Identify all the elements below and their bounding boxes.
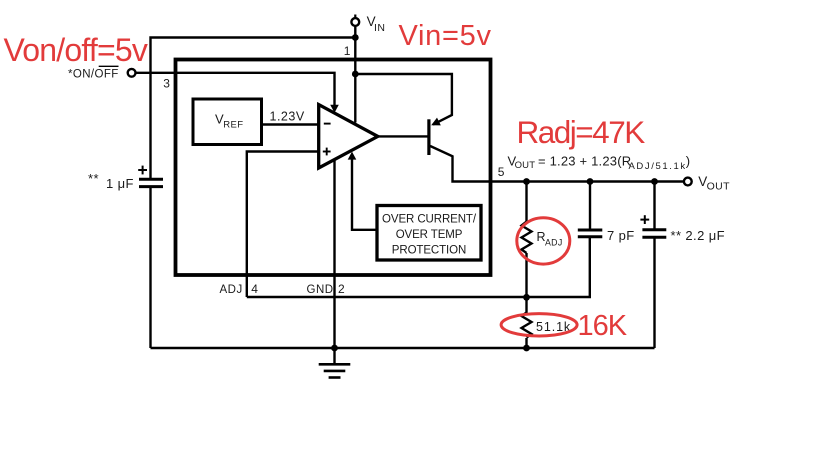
svg-text:Vin=5v: Vin=5v xyxy=(399,20,492,52)
junction node Vout-7pF xyxy=(587,178,594,185)
svg-text:1: 1 xyxy=(344,44,351,58)
wire collector to Vout xyxy=(430,146,684,182)
junction node Vout-Radj xyxy=(523,178,530,185)
capacitor C1 plus xyxy=(138,169,147,171)
svg-text:7 pF: 7 pF xyxy=(607,228,635,243)
svg-text:5: 5 xyxy=(498,165,505,179)
capacitor C2 7pF plates xyxy=(578,229,603,232)
svg-text:REF: REF xyxy=(223,120,243,131)
overline OFF xyxy=(99,65,119,67)
op-amp U1 error amplifier xyxy=(319,105,378,168)
svg-text:Von/off=5v: Von/off=5v xyxy=(4,32,148,68)
junction node Vout-2.2uF xyxy=(651,178,658,185)
wire Radj top xyxy=(525,182,527,223)
wire opamp output to base xyxy=(378,135,428,137)
wire opamp gnd xyxy=(333,160,335,348)
wire 51.1k bottom xyxy=(525,338,527,348)
transistor Q1 emitter arrowhead xyxy=(429,118,441,130)
capacitor C1 1uF plates xyxy=(139,178,163,181)
over current / over temp protection box xyxy=(377,206,481,261)
junction node Vin top xyxy=(352,34,359,41)
junction node Radj-51.1k xyxy=(523,294,530,301)
red ellipse around 51.1k xyxy=(501,314,577,336)
wire ADJ feedback rail xyxy=(247,237,590,297)
wire Vin branch left to cap xyxy=(151,38,356,179)
wire Vin internal branch to pass transistor emitter xyxy=(355,74,452,125)
wire opamp minus input from Vref xyxy=(262,123,319,125)
svg-text:OVER TEMP: OVER TEMP xyxy=(396,229,463,241)
svg-text:IN: IN xyxy=(374,22,385,34)
junction node gnd rail center xyxy=(331,345,338,352)
svg-text:ADJ/51.1k: ADJ/51.1k xyxy=(629,161,687,172)
capacitor C3 plus xyxy=(640,219,649,221)
svg-text:4: 4 xyxy=(251,282,258,296)
protection arrowhead xyxy=(348,152,357,160)
svg-text:= 1.23 + 1.23(R: = 1.23 + 1.23(R xyxy=(538,154,631,169)
wire opamp plus input feedback xyxy=(247,152,319,298)
wire 7pF top xyxy=(589,182,591,230)
wire 2.2uF bottom xyxy=(653,237,655,348)
terminal VOUT xyxy=(684,178,692,186)
svg-text:ADJ: ADJ xyxy=(220,284,243,296)
wire ON/OFF to enable arrow xyxy=(136,73,335,106)
svg-text:OUT: OUT xyxy=(707,180,731,192)
wire protection to opamp xyxy=(352,158,377,230)
opamp plus sign xyxy=(323,151,331,153)
regulator IC box U1 xyxy=(176,60,491,276)
transistor Q1 base bar xyxy=(427,119,430,155)
svg-text:*ON/OFF: *ON/OFF xyxy=(68,68,119,80)
svg-text:ADJ: ADJ xyxy=(545,238,563,248)
terminal ON/OFF xyxy=(128,69,136,77)
svg-text:PROTECTION: PROTECTION xyxy=(392,245,466,257)
ground xyxy=(333,348,335,364)
red circle around RADJ xyxy=(517,218,570,264)
resistor RADJ zigzag xyxy=(522,222,532,254)
terminal VIN stub xyxy=(354,15,356,19)
Vref box xyxy=(193,99,262,145)
capacitor C3 2.2uF plates xyxy=(642,228,666,231)
wire ground rail xyxy=(151,347,655,349)
terminal VIN xyxy=(351,18,359,26)
svg-text:GND: GND xyxy=(307,284,334,296)
wire 2.2uF top xyxy=(653,182,655,230)
opamp minus sign xyxy=(324,123,331,125)
resistor R1 51.1k zigzag xyxy=(522,313,532,338)
svg-text:16K: 16K xyxy=(578,310,628,342)
junction node Vin internal xyxy=(352,71,359,78)
wire Vin terminal stub xyxy=(354,26,356,123)
junction node 51.1k-gnd xyxy=(523,345,530,352)
svg-text:1.23V: 1.23V xyxy=(270,110,305,124)
svg-text:OUT: OUT xyxy=(515,160,536,171)
svg-text:3: 3 xyxy=(163,77,170,91)
svg-text:**: ** xyxy=(88,171,99,186)
wire cap1 bottom to ground rail xyxy=(149,187,151,348)
wire Radj bottom xyxy=(525,253,527,313)
ground symbol xyxy=(319,364,351,377)
svg-text:): ) xyxy=(686,154,690,169)
svg-text:Radj=47K: Radj=47K xyxy=(517,114,646,150)
enable arrowhead xyxy=(330,105,339,113)
svg-text:OVER CURRENT/: OVER CURRENT/ xyxy=(382,214,477,226)
svg-text:2: 2 xyxy=(338,282,345,296)
svg-text:1 μF: 1 μF xyxy=(106,176,134,191)
svg-text:** 2.2 μF: ** 2.2 μF xyxy=(671,228,725,243)
